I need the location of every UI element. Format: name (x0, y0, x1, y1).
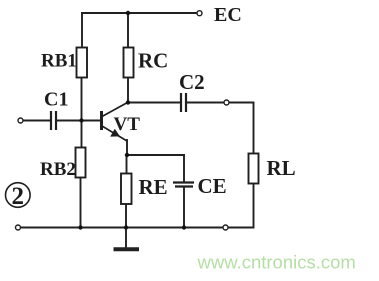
wire bottom rail (21, 227, 224, 229)
capacitor C2 (181, 93, 186, 112)
junction top rail / RC (126, 11, 130, 15)
capacitor CE (173, 183, 194, 187)
svg-text:RL: RL (267, 156, 296, 180)
terminal output bottom (223, 225, 228, 230)
terminal input (18, 118, 23, 123)
wire emitter node to CE (127, 154, 184, 156)
junction base node (79, 118, 83, 122)
wire output bottom terminal to RL bottom (228, 184, 254, 228)
junction RE / bottom rail (124, 225, 128, 229)
junction collector node (126, 100, 130, 104)
wire CE bottom to ground rail (183, 187, 185, 228)
svg-text:RC: RC (138, 49, 168, 73)
junction emitter node (125, 153, 129, 157)
terminal bottom left (16, 225, 21, 230)
resistor RE (121, 174, 132, 205)
junction CE / bottom rail (182, 225, 186, 229)
ground (116, 228, 138, 250)
junction RB2 / bottom rail (78, 225, 82, 229)
wire input terminal to C1 (23, 120, 50, 122)
resistor RB1 (77, 48, 88, 78)
wire C2 to output terminal (187, 102, 224, 104)
wire emitter down leg (126, 140, 128, 155)
resistor RL (249, 154, 259, 184)
svg-text:C1: C1 (44, 89, 68, 111)
transistor VT (102, 103, 128, 142)
node circled 2 figure number (5, 183, 30, 210)
svg-text:C2: C2 (179, 70, 205, 94)
svg-text:VT: VT (114, 114, 141, 135)
svg-text:EC: EC (214, 4, 242, 26)
wire RE bottom to ground rail (125, 204, 127, 228)
svg-text:CE: CE (198, 174, 227, 198)
capacitor C1 (51, 111, 56, 130)
resistor RB2 (76, 148, 86, 178)
wire output terminal to RL top (229, 103, 254, 154)
wire RC bottom to collector node (127, 78, 129, 103)
wire top rail (82, 12, 197, 14)
wire emitter node to RE (126, 155, 128, 174)
wire collector node to C2 (128, 102, 180, 104)
wire C1 to base (57, 120, 101, 122)
svg-text:RB2: RB2 (40, 159, 76, 180)
terminal output top (224, 100, 229, 105)
wire CE top leg (183, 155, 185, 182)
svg-text:www.cntronics.com: www.cntronics.com (197, 252, 356, 273)
svg-text:RB1: RB1 (41, 51, 77, 72)
wire RB1 bottom to RB2 top (81, 78, 83, 148)
svg-text:2: 2 (12, 183, 25, 210)
terminal EC (197, 11, 202, 16)
wire RB1 top leg (81, 13, 83, 48)
wire RB2 bottom to ground rail (80, 178, 82, 228)
svg-text:RE: RE (139, 175, 168, 199)
wire RC top leg (127, 13, 129, 48)
resistor RC (124, 48, 134, 78)
